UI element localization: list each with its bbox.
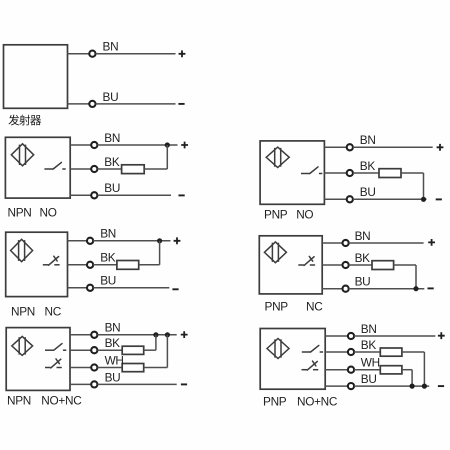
svg-text:NPN: NPN [11,304,35,318]
NC switch contact [43,256,60,265]
svg-text:PNP: PNP [263,394,287,408]
terminal circle BK [348,349,354,355]
optical sensor symbol [11,144,33,166]
svg-text:BN: BN [105,321,121,335]
wire BK to load resistor [93,264,117,266]
terminal circle BK [347,170,353,176]
wire from load resistor [394,264,416,266]
wire BK from box [322,264,342,266]
wire load drop to BU junction [423,173,425,199]
load resistor [117,261,139,270]
optical sensor symbol [267,339,289,359]
transmitter body box [4,45,68,109]
wire from BK load resistor [144,349,156,351]
terminal circle BK [91,347,97,353]
wire BN from box [68,240,88,242]
svg-text:PNP: PNP [264,207,288,221]
svg-text:BK: BK [100,251,116,265]
terminal circle BN [347,144,353,150]
wire BK load drop to BU junction [423,352,425,386]
sensor body box NPN NO [5,137,70,198]
terminal circle BN [89,51,95,57]
svg-text:BU: BU [103,90,119,104]
wire BU to supply - [96,103,176,105]
wire WH from box [70,367,91,369]
sensor body box PNP NO+NC [260,329,325,390]
wire from load resistor [144,168,167,170]
wire BK from box [68,264,88,266]
wire load drop to BU junction [415,265,417,289]
svg-text:NO: NO [296,207,313,221]
wire BK to load resistor [354,351,380,353]
terminal circle BU [343,286,349,292]
wire BK to load resistor [349,264,372,266]
NC switch contact [302,361,319,370]
svg-text:WH: WH [105,353,124,367]
wire BK to load resistor [97,349,122,351]
minus supply terminal [181,383,187,385]
junction node BN/NC-load [165,332,170,337]
terminal circle BN [91,142,97,148]
wire BU from box [322,288,342,290]
junction node BU/BK-load [422,384,427,389]
optical sensor symbol [11,239,33,261]
wire WH load drop to BU junction [411,370,413,386]
terminal circle BU [91,192,97,198]
junction node BU/WH-load [410,384,415,389]
svg-text:NPN: NPN [7,393,31,407]
load resistor on BK [122,346,144,354]
terminal circle BN [87,238,93,244]
wire BK to load resistor [353,172,379,174]
sensor body box NPN NC [6,232,68,296]
svg-text:BU: BU [105,370,121,384]
load resistor on BK [380,348,402,356]
wire BU from box [324,198,346,200]
sensor body box NPN NO+NC [6,328,70,391]
terminal circle BN [348,333,354,339]
wire BU to supply - [354,385,429,387]
wire BN to supply + [97,144,177,146]
terminal circle BU [89,101,95,107]
terminal circle BN [91,332,97,338]
wire BN to supply + [353,146,433,148]
svg-text:BU: BU [360,185,376,199]
NO switch contact [301,167,322,174]
sensor body box PNP NC [259,236,322,294]
svg-text:BU: BU [104,181,120,195]
terminal circle BK [343,262,349,268]
svg-text:BU: BU [355,275,371,289]
plus supply terminal [438,332,445,339]
svg-text:BK: BK [105,336,121,350]
plus supply terminal [181,331,188,338]
NC switch contact [298,256,315,265]
minus supply terminal [172,288,178,290]
wire BU from transmitter box to terminal [68,103,90,105]
load resistor [379,169,401,178]
wire BU to supply - [93,287,169,289]
svg-text:BN: BN [361,322,377,336]
svg-text:NC: NC [306,299,323,313]
svg-text:BK: BK [361,338,377,352]
wire BN from transmitter box to terminal [68,53,90,55]
junction node BU/load [421,197,426,202]
load resistor on WH [122,364,144,372]
svg-text:BK: BK [104,155,120,169]
wire BN to supply + [97,334,176,336]
terminal circle WH [348,367,354,373]
NO switch contact [44,162,65,169]
junction node BU/load [413,286,418,291]
svg-text:BU: BU [100,274,116,288]
load resistor [122,165,145,174]
wire BN to supply + [349,242,424,244]
wire BN from box [325,335,348,337]
terminal circle BK [87,262,93,268]
wire WH from box [325,369,348,371]
terminal circle WH [91,364,97,370]
svg-text:BN: BN [355,229,371,243]
sensor body box PNP NO [260,141,324,204]
wire load riser to BN junction [159,241,161,265]
junction node BN/load [157,238,162,243]
wire BN from box [70,334,91,336]
svg-text:NO: NO [40,205,57,219]
wire BU from box [70,194,91,196]
plus supply terminal [179,50,186,57]
wire WH to load resistor [97,367,122,369]
junction node BN/load [165,142,170,147]
wire BN to supply + [93,240,170,242]
svg-text:BK: BK [355,251,371,265]
svg-text:NPN: NPN [8,205,32,219]
wire WH to load resistor [354,369,380,371]
minus supply terminal [179,194,185,196]
wire BK load riser to BN junction [155,335,157,350]
plus supply terminal [437,144,444,151]
load resistor [372,261,394,270]
svg-text:BN: BN [100,227,116,241]
optical sensor symbol [264,242,286,263]
wire BU to supply - [97,383,176,385]
wire BU to supply - [349,288,425,290]
wire from WH load resistor [144,367,168,369]
NO switch contact [302,345,323,352]
svg-text:NO+NC: NO+NC [297,394,338,408]
optical sensor symbol [12,336,33,355]
terminal circle BU [91,381,97,387]
svg-text:NO+NC: NO+NC [41,393,82,407]
svg-text:BN: BN [103,40,119,54]
wire BU from box [68,287,88,289]
terminal circle BU [348,383,354,389]
wire BK from box [325,351,348,353]
plus supply terminal [174,237,181,244]
wire from BK load resistor [402,351,425,353]
wire BU to supply - [353,198,427,200]
terminal circle BN [343,240,349,246]
wire from WH load resistor [402,369,412,371]
terminal circle BK [91,166,97,172]
plus supply terminal [428,239,435,246]
svg-text:BU: BU [361,372,377,386]
svg-text:BN: BN [104,131,120,145]
terminal circle BU [87,285,93,291]
wire WH load riser to BN junction [166,335,168,368]
wire load riser to BN junction [166,145,168,169]
wire BN to supply + [354,335,435,337]
load resistor on WH [380,366,402,374]
wire BN from box [324,146,346,148]
wire from load resistor [401,172,424,174]
wire BK from box [70,168,91,170]
wire BK from box [324,172,346,174]
svg-text:NC: NC [45,304,62,318]
plus supply terminal [181,142,188,149]
wire BN to supply + [96,53,176,55]
wire BK to load resistor [97,168,121,170]
wire from load resistor [139,264,160,266]
svg-text:BN: BN [360,133,376,147]
NC switch contact [45,359,62,368]
svg-text:WH: WH [361,356,380,370]
NO switch contact [45,344,66,351]
wire BN from box [322,242,342,244]
junction node BN/NO-load [153,332,158,337]
terminal circle BU [347,196,353,202]
wire BU from box [325,385,348,387]
wire BN from box [70,144,91,146]
wire BU from box [70,383,91,385]
label 发射器 (transmitter) [8,115,41,126]
wire BK from box [70,349,91,351]
svg-text:PNP: PNP [265,299,289,313]
minus supply terminal [428,287,434,289]
svg-text:BK: BK [360,159,376,173]
minus supply terminal [436,198,442,200]
minus supply terminal [438,385,444,387]
minus supply terminal [178,103,184,105]
optical sensor symbol [266,147,289,167]
wire BU to supply - [97,194,171,196]
